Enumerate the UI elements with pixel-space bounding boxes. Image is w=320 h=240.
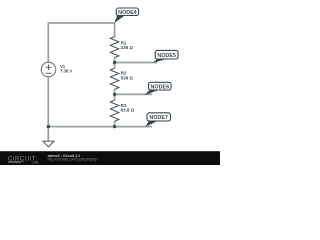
node D junction dot (bottom rail / ground) [47,125,50,128]
wire: NODE6 stub [115,93,152,95]
wire: R3 leads [114,94,116,126]
svg-text:http://circuitlab.com/c2y56g35: http://circuitlab.com/c2y56g35fpdg7 [48,157,98,161]
CircuitLab logo [8,155,39,164]
R2 label [121,71,134,81]
voltage source V1 [41,62,56,77]
svg-text:538 Ω: 538 Ω [121,75,134,80]
resistor R1 [110,37,118,58]
svg-text:NODE7: NODE7 [149,115,168,121]
resistor R3 [110,100,118,121]
node NODE7 flag [145,113,170,127]
ground [43,141,54,147]
wire: ground stem [47,127,49,141]
V1 label [60,64,72,74]
svg-text:NODE4: NODE4 [118,10,137,16]
R3 label [121,103,135,113]
svg-text:NODE6: NODE6 [151,84,170,90]
wire: bottom rail (net NODE7) [48,126,152,128]
node NODE6 flag [144,82,171,95]
svg-text:NODE5: NODE5 [157,53,176,59]
node C junction dot (bottom rail / R3) [113,125,116,128]
svg-text:LAB: LAB [32,160,39,164]
wire: V1 top up and across to resistor chain (net NODE4) [48,23,114,62]
resistor R2 [110,68,118,89]
node NODE5 flag [153,50,178,62]
watermark bar [0,151,220,165]
wire: NODE5 stub [115,62,158,64]
wire: R2 leads [114,63,116,95]
node B junction dot (NODE6) [113,93,116,96]
svg-text:7.38 V: 7.38 V [60,69,72,74]
node NODE4 flag [114,8,138,23]
node A junction dot (NODE5) [113,61,116,64]
R1 label [121,41,134,51]
wire: R1 bottom lead stub [114,58,116,63]
svg-text:83.8 Ω: 83.8 Ω [121,108,135,113]
wire: V1 bottom to bottom rail [47,77,49,127]
svg-text:238 Ω: 238 Ω [121,45,134,50]
